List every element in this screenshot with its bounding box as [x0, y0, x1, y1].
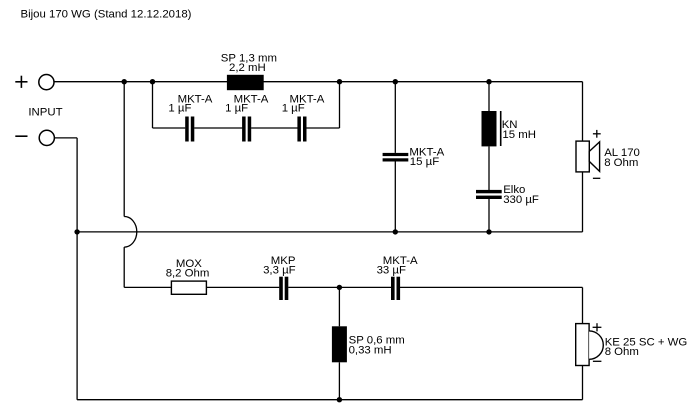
- svg-text:330 µF: 330 µF: [503, 194, 539, 206]
- wire: hop over woofer return rail: [124, 217, 137, 248]
- wire: parallel cap rail segment 4: [306, 127, 339, 129]
- wire: tap vertical lower segment (hop to tweeter rail corner): [123, 247, 125, 287]
- svg-text:0,33 mH: 0,33 mH: [349, 345, 392, 357]
- wire: right drop from top rail to AL 170 top: [582, 82, 584, 141]
- plus terminal symbol: [15, 76, 27, 88]
- wire: parallel cap rail segment 3: [251, 127, 297, 129]
- speaker LS1 horn: [589, 142, 599, 172]
- svg-text:8 Ohm: 8 Ohm: [604, 157, 638, 169]
- wire: left vertical from minus terminal down to bottom rail: [76, 138, 78, 400]
- svg-text:2,2 mH: 2,2 mH: [229, 62, 266, 74]
- capacitor C1 MKT-A 1uF plates: [185, 117, 194, 142]
- svg-text:8,2 Ohm: 8,2 Ohm: [166, 268, 210, 280]
- input terminal - circle: [39, 130, 54, 145]
- junction dot: shunt inductor top: [337, 285, 342, 290]
- wire: tweeter rail segment 1: [124, 286, 279, 288]
- wire: KN branch upper vertical: [488, 82, 490, 111]
- wire: tap vertical upper segment (node A to hop): [123, 82, 125, 217]
- capacitor C4 MKT-A 15uF plates: [383, 153, 409, 162]
- inductor L3 SP 0,6 mm 0,33 mH body: [332, 326, 347, 362]
- wire: parallel cap rail segment 1: [153, 127, 186, 129]
- resistor R1 MOX 8,2 Ohm: [171, 281, 206, 294]
- inductor L1 SP 1,3 mm 2,2 mH: [227, 75, 264, 90]
- junction dot: top rail tap: [122, 79, 127, 84]
- junction dot: KN branch bottom: [486, 229, 491, 234]
- wire: KN branch middle vertical: [488, 146, 490, 190]
- junction dot: KN branch top: [486, 79, 491, 84]
- wire: top rail from + terminal to right edge: [54, 81, 583, 83]
- wire: shunt inductor upper vertical: [338, 287, 340, 326]
- svg-text:15 mH: 15 mH: [502, 129, 536, 141]
- input terminal + circle: [39, 75, 54, 90]
- speaker LS2 minus mark: [593, 360, 602, 362]
- capacitor C5 Elko 330uF plates: [476, 190, 502, 199]
- wire: parallel cap rail segment 2: [194, 127, 242, 129]
- speaker LS1 AL 170 body: [576, 141, 589, 172]
- wire: AL 170 bottom to woofer return rail: [582, 172, 584, 232]
- wire: tweeter rail segment 2: [288, 286, 391, 288]
- svg-text:Bijou 170 WG (Stand 12.12.2018: Bijou 170 WG (Stand 12.12.2018): [21, 9, 192, 21]
- speaker LS1 minus mark: [593, 177, 600, 179]
- svg-text:1 µF: 1 µF: [225, 103, 248, 115]
- wire: right drop from tweeter rail to KE 25 top: [582, 287, 584, 323]
- junction dot: parallel branch left: [150, 79, 155, 84]
- svg-text:1 µF: 1 µF: [282, 103, 305, 115]
- capacitor C6 MKP 3,3uF plates: [279, 277, 288, 300]
- wire: woofer return rail: [77, 231, 582, 233]
- svg-text:INPUT: INPUT: [28, 106, 62, 118]
- wire: shunt inductor lower vertical: [338, 362, 340, 399]
- wire: tweeter rail segment 3: [400, 286, 583, 288]
- wire: KE 25 bottom to bottom rail: [582, 366, 584, 400]
- inductor L2 KN 15 mH body: [482, 111, 497, 146]
- junction dot: parallel branch right: [337, 79, 342, 84]
- junction dot: minus vertical joins woofer return rail: [74, 229, 79, 234]
- svg-text:8 Ohm: 8 Ohm: [605, 346, 639, 358]
- wire: shunt 15uF upper vertical: [394, 82, 396, 153]
- svg-text:15 µF: 15 µF: [410, 156, 439, 168]
- svg-text:3,3 µF: 3,3 µF: [263, 264, 296, 276]
- speaker LS2 KE 25 SC body: [576, 324, 589, 366]
- wire: KN branch lower vertical: [488, 199, 490, 232]
- speaker LS2 plus mark: [593, 323, 602, 331]
- junction dot: 15uF branch top: [393, 79, 398, 84]
- speaker LS1 plus mark: [593, 130, 601, 138]
- junction dot: 15uF branch bottom: [393, 229, 398, 234]
- wire: shunt 15uF lower vertical: [394, 162, 396, 232]
- svg-text:1 µF: 1 µF: [168, 103, 191, 115]
- wire: parallel branch left vertical: [152, 82, 154, 128]
- wire: minus terminal stub: [54, 137, 77, 139]
- capacitor C7 MKT-A 33uF plates: [391, 277, 400, 300]
- svg-text:33 µF: 33 µF: [377, 264, 406, 276]
- speaker LS2 dome: [589, 331, 603, 359]
- capacitor C2 MKT-A 1uF plates: [242, 117, 251, 142]
- wire: bottom return rail: [77, 399, 582, 401]
- capacitor C3 MKT-A 1uF plates: [297, 117, 306, 142]
- inductor L2 core line: [500, 111, 502, 146]
- junction dot: shunt inductor bottom: [337, 397, 342, 402]
- minus terminal symbol: [15, 135, 27, 137]
- wire: parallel branch right vertical: [339, 82, 341, 128]
